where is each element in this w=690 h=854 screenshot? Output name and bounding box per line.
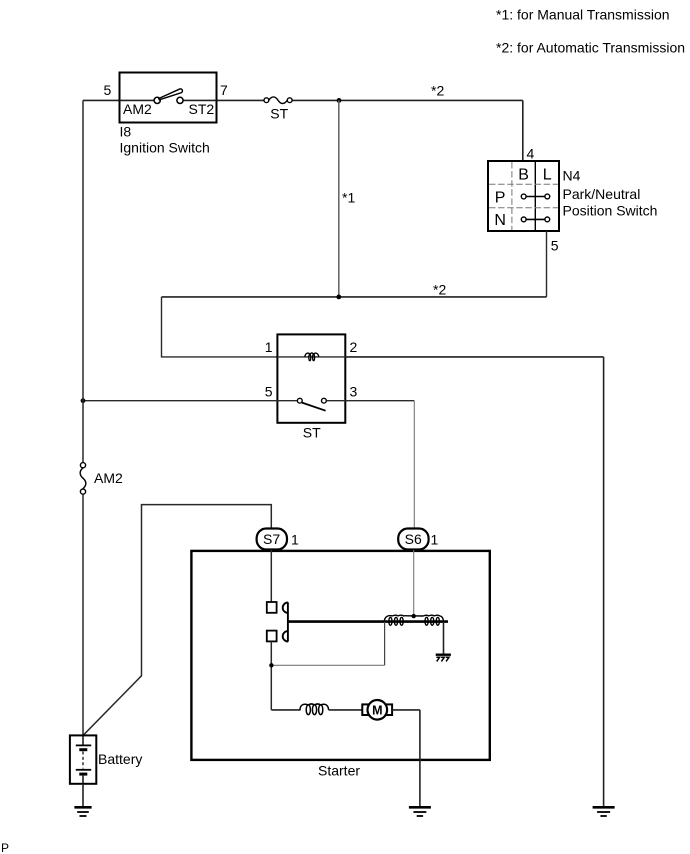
svg-text:AM2: AM2: [94, 470, 123, 486]
left rail upper segment: [82, 100, 84, 462]
node junction on left rail: [81, 398, 86, 403]
wire field coil to motor: [329, 709, 363, 711]
svg-text:3: 3: [350, 383, 358, 399]
chassis ground: [436, 655, 451, 662]
svg-text:S7: S7: [263, 531, 280, 547]
pull-in coil: [384, 615, 407, 625]
svg-text:B: B: [518, 167, 529, 184]
node junction to motor branch: [269, 663, 273, 667]
contact row N: [521, 217, 549, 222]
wire *2 horizontal: [162, 296, 547, 298]
svg-text:ST: ST: [303, 424, 321, 440]
svg-text:S6: S6: [405, 531, 422, 547]
wire motor ground drop vertical: [419, 710, 421, 807]
svg-text:4: 4: [527, 146, 535, 162]
node junction at ST output: [337, 98, 342, 103]
svg-text:ST: ST: [270, 106, 288, 122]
svg-text:*2: for Automatic Transmission: *2: for Automatic Transmission: [496, 40, 685, 56]
svg-text:P: P: [495, 189, 506, 206]
wire fuse ST to corner above N4 pin 4: [292, 99, 523, 101]
relay contact circles and lever: [297, 398, 326, 410]
svg-text:*1: for Manual Transmission: *1: for Manual Transmission: [496, 7, 670, 23]
wire B+ from left vertical to ignition switch pin 5: [83, 99, 120, 101]
switch contact ST2: [177, 97, 183, 103]
svg-text:1: 1: [265, 339, 273, 355]
wire down to N4 pin 4: [522, 100, 524, 161]
solenoid moving contact bar: [283, 602, 288, 641]
park/neutral position switch N4 box: [488, 161, 559, 231]
connector S7: [257, 529, 287, 550]
wire S7 feed: horizontal, vertical, diagonal to battery: [83, 505, 271, 736]
wire N4 pin 5 down: [546, 231, 548, 297]
svg-text:Ignition Switch: Ignition Switch: [120, 140, 210, 156]
wire relay pin 5 to left rail: [83, 400, 277, 402]
svg-text:P: P: [1, 841, 9, 854]
relay contact wire right: [326, 400, 345, 402]
hold-in coil: [407, 615, 444, 625]
relay contact wire left: [277, 400, 297, 402]
relay coil: [305, 353, 319, 361]
wire lower contact to junction: [270, 641, 272, 710]
node junction between coils: [412, 614, 416, 618]
svg-text:Park/Neutral: Park/Neutral: [563, 186, 641, 202]
wire S7 into starter: [270, 550, 272, 602]
solenoid fixed contact lower: [267, 631, 277, 642]
contact row P: [521, 194, 549, 199]
battery: [70, 735, 96, 783]
svg-text:M: M: [372, 704, 382, 718]
svg-text:2: 2: [350, 339, 358, 355]
wire relay pin 3: [345, 400, 414, 402]
solenoid fixed contact upper: [267, 602, 277, 613]
left rail lower segment: [82, 494, 84, 735]
wire down to relay pin 1: [162, 297, 278, 357]
starter box: [191, 551, 489, 760]
ignition switch I8 box: [120, 73, 217, 123]
svg-text:I8: I8: [120, 123, 132, 139]
wire inside switch to AM2 contact: [120, 99, 155, 101]
svg-text:Starter: Starter: [318, 762, 360, 778]
switch contact AM2: [154, 97, 160, 103]
connector S6: [398, 529, 428, 550]
svg-text:N: N: [494, 212, 506, 229]
svg-text:5: 5: [104, 82, 112, 98]
ground starter: [409, 807, 431, 816]
field coil: [300, 704, 329, 715]
relay coil wire: [277, 356, 345, 358]
wire plunger link horizontal: [271, 664, 384, 666]
svg-text:N4: N4: [563, 167, 581, 183]
wire ignition switch pin 7 to fuse ST: [217, 99, 265, 101]
plunger bar: [288, 620, 448, 623]
fuse AM2: [80, 463, 86, 495]
wire relay pin 2 to right rail: [345, 356, 603, 358]
svg-text:1: 1: [291, 531, 299, 547]
ground battery: [74, 807, 91, 816]
svg-text:5: 5: [265, 383, 273, 399]
svg-text:L: L: [543, 167, 552, 184]
wire S6 down to coils: [413, 550, 415, 616]
wire junction to field coil: [271, 709, 300, 711]
wire motor to ground drop: [392, 709, 420, 711]
right rail down to ground: [603, 357, 605, 807]
relay ST box: [277, 334, 345, 422]
svg-text:*2: *2: [431, 83, 444, 99]
switch lever: [159, 89, 183, 100]
svg-text:Battery: Battery: [98, 751, 142, 767]
svg-text:Position Switch: Position Switch: [563, 203, 658, 219]
fuse ST: [264, 97, 292, 104]
wire *1 vertical: [338, 100, 340, 297]
wire inside switch from ST2 contact: [183, 99, 217, 101]
wire battery to ground: [82, 784, 84, 807]
ground right: [593, 807, 615, 816]
svg-text:1: 1: [431, 531, 439, 547]
wire plunger link vertical: [384, 622, 386, 666]
svg-text:*2: *2: [433, 282, 446, 298]
node junction on *2 wire: [336, 295, 341, 300]
svg-text:ST2: ST2: [189, 101, 215, 117]
motor M: [362, 700, 392, 720]
svg-text:AM2: AM2: [123, 101, 152, 117]
wire down to S6: [413, 401, 415, 529]
wire coil end down to chassis ground: [443, 622, 445, 655]
svg-text:*1: *1: [342, 189, 355, 205]
svg-text:7: 7: [220, 82, 228, 98]
svg-text:5: 5: [551, 237, 559, 253]
